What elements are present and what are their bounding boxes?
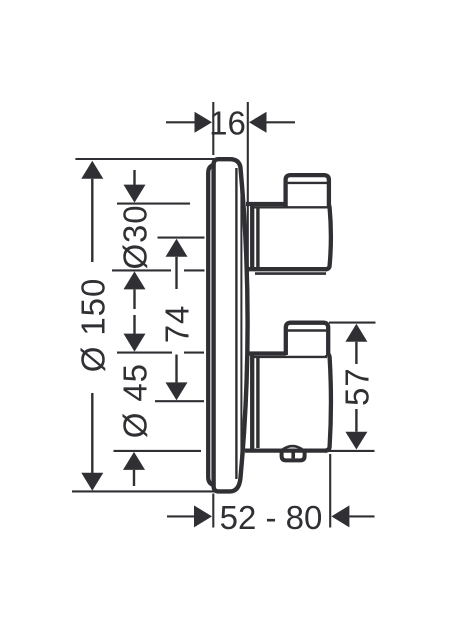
dim 57 upper stem [355,342,357,364]
lower handle cap [286,323,328,355]
dim 150 upper stem [91,179,93,262]
dim 74 lower stem [175,355,177,383]
escutcheon plate outline [214,159,248,491]
svg-text:Ø 150: Ø 150 [74,278,111,372]
upper handle inner left edge [256,207,259,268]
dim 30 lower stem [133,289,135,309]
dim 52-80 left extension line [212,494,214,528]
safety stop button [282,451,305,461]
dim 74 up arrow [166,239,188,257]
upper handle cap [286,175,329,207]
lower handle base right edge [325,354,331,451]
svg-text:Ø 45: Ø 45 [117,363,154,438]
dim 150 lower stem [91,393,93,474]
dim 52-80 right extension line [329,454,331,528]
upper handle base left edge [250,204,254,269]
dim 30 upper stem [133,170,135,185]
lower handle base bottom edge [245,448,327,452]
dim 150 top tick [75,158,217,160]
dim 16 right extension line [247,102,249,330]
dim 74 upper stem [175,257,177,289]
upper handle base top edge [246,202,286,206]
upper handle under-cap seam [254,206,328,208]
lower handle inner left edge [256,357,259,448]
dim 74 top tick [158,237,205,239]
dim 57 up arrow [345,324,367,342]
dim 45 upper stem [133,315,135,334]
upper handle cap inner line [288,182,327,184]
lower handle cap inner line [288,329,326,331]
dim 30 bottom tick [112,269,171,271]
dim 57 top tick [329,322,376,324]
plate face inner line 1 [235,168,237,479]
dim 52-80 left stub [167,515,194,517]
dim 52-80 right stub [349,515,374,517]
escutcheon plate back contour [208,165,216,485]
lower handle under-cap seam [254,356,327,358]
dim 30 top tick [117,203,190,205]
dim 57 lower stem [355,409,357,432]
dim 52-80 right arrow [331,505,349,527]
dim 150 top arrow [81,161,103,179]
lower handle base top edge [247,351,287,355]
dim 150 bottom tick [72,490,217,492]
dim 16 left stub [166,121,195,123]
svg-text:74: 74 [159,305,196,344]
dim 16 right arrow [249,112,267,133]
upper handle bottom seam [255,272,326,275]
dim 52-80 left arrow [194,505,212,527]
dim 74 down arrow [166,382,188,400]
dim 30 up arrow [124,271,146,289]
lower handle base left edge [250,354,254,449]
dim 16 right stub [267,121,296,123]
dim 16 left arrow [195,112,213,133]
lower handle bump arc [281,446,304,451]
dim 45 bottom tick [114,450,202,452]
dim 16 left extension line [212,102,214,155]
dim 74 bottom tick [155,400,204,402]
plate face inner line 2 [240,178,242,472]
dim 57 down arrow [345,432,367,450]
dim 45 lower stem [133,470,135,486]
svg-text:Ø30: Ø30 [117,204,154,269]
svg-text:57: 57 [338,368,375,407]
svg-text:52 - 80: 52 - 80 [220,499,323,536]
dim 150 bottom arrow [81,473,103,491]
dim 45 top tick [117,352,172,354]
upper handle base right edge [325,204,331,269]
svg-text:16: 16 [209,104,246,141]
upper handle base bottom edge [247,267,327,271]
dim 57 bottom tick [322,450,375,452]
dim 30 down arrow [124,185,146,203]
safety stop button divider [291,451,295,459]
dim 45 up arrow [123,452,145,470]
dim 45 down arrow [124,334,146,352]
